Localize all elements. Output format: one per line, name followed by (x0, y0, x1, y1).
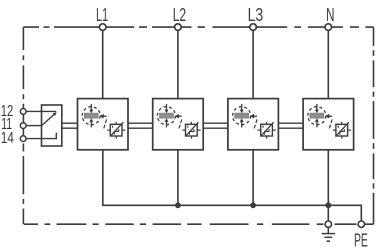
svg-text:PE: PE (354, 230, 368, 249)
SPD protection module U3 (box) (228, 99, 279, 150)
disconnector switch box of module U2 (186, 124, 198, 136)
svg-text:L1: L1 (96, 4, 108, 25)
terminal 14 (20, 136, 26, 142)
interconnect double line (62, 122, 78, 124)
wire module U3 down to PE bus (252, 150, 254, 206)
terminal L1 (99, 24, 106, 31)
thermal arrow (bottom) into varistor VDR3 (241, 121, 243, 127)
remote signalling switch box S1 (42, 105, 62, 146)
terminal N (325, 24, 332, 31)
varistor VDR4 thermal-monitoring dashed circle (308, 107, 326, 125)
varistor VDR3 body (gray) (235, 113, 249, 118)
svg-text:N: N (326, 4, 335, 25)
wire terminal 11 (common) (26, 125, 41, 127)
SPD protection module U1 (box) (78, 99, 129, 150)
varistor VDR4 body (gray) (310, 113, 324, 118)
mechanical linkage (dashed) U2 (179, 119, 182, 128)
SPD protection module U2 (box) (153, 99, 204, 150)
enclosure border right (dash-dot) (373, 27, 375, 224)
interconnect double line (128, 122, 153, 124)
wire N terminal to module U4 (327, 30, 329, 98)
enclosure border top (dash-dot) (23, 26, 373, 28)
terminal 12 (20, 109, 26, 115)
wire module U1 down to PE bus (corner) (103, 150, 362, 221)
earth terminal on enclosure (325, 221, 331, 227)
enclosure border bottom (dash-dot) (24, 223, 374, 225)
disconnector switch box of module U4 (336, 124, 348, 136)
trip indicator arrow of module U4 (325, 114, 329, 119)
interconnect double line (278, 122, 303, 124)
junction dot at U2/bus (175, 202, 181, 208)
svg-text:L3: L3 (248, 4, 264, 25)
terminal L2 (175, 24, 182, 31)
interconnect double line (203, 122, 228, 124)
trip indicator arrow of module U2 (175, 114, 179, 119)
wire L1 terminal to module U1 (102, 30, 104, 98)
disconnector stubs U3 (258, 129, 261, 131)
disconnector stubs U1 (107, 129, 110, 131)
disconnector switch box of module U3 (261, 124, 273, 136)
wire L3 terminal to module U3 (252, 30, 254, 98)
mechanical linkage (dashed) U3 (254, 119, 257, 128)
wire bus down to earth terminal (327, 205, 329, 221)
svg-text:14: 14 (1, 130, 14, 147)
wire L2 terminal to module U2 (177, 30, 179, 98)
thermal arrow (top) into varistor VDR1 (90, 104, 92, 110)
junction dot at U3/bus (250, 202, 256, 208)
wire module U4 down to PE bus (327, 150, 329, 206)
wire terminal 14 (NO contact) (26, 133, 56, 139)
mechanical linkage (dashed) U4 (329, 119, 332, 128)
PE terminal (358, 221, 364, 227)
thermal arrow (top) into varistor VDR4 (316, 104, 318, 110)
mechanical linkage (dashed) U1 (104, 119, 107, 128)
thermal arrow (bottom) into varistor VDR4 (316, 121, 318, 127)
trip indicator arrow of module U1 (100, 114, 104, 119)
varistor VDR1 body (gray) (84, 113, 98, 118)
wire terminal 12 (NC contact) (26, 110, 56, 112)
terminal 11 (20, 123, 26, 129)
switch blade with arrow (42, 114, 55, 125)
SPD protection module U4 (box) (303, 99, 354, 150)
junction dot at N-module/bus (325, 202, 331, 208)
thermal arrow (bottom) into varistor VDR1 (90, 121, 92, 127)
varistor VDR2 thermal-monitoring dashed circle (157, 107, 175, 125)
thermal arrow (bottom) into varistor VDR2 (166, 121, 168, 127)
thermal arrow (top) into varistor VDR3 (241, 104, 243, 110)
ground symbol (327, 228, 329, 234)
svg-text:L2: L2 (173, 4, 186, 25)
varistor VDR1 thermal-monitoring dashed circle (82, 107, 100, 125)
terminal L3 (250, 24, 257, 31)
disconnector stubs U4 (333, 129, 336, 131)
enclosure border left (dash-dot) (22, 27, 24, 224)
disconnector switch box of module U1 (110, 124, 122, 136)
wire module U2 down to PE bus (177, 150, 179, 206)
varistor VDR3 thermal-monitoring dashed circle (233, 107, 251, 125)
trip indicator arrow of module U3 (250, 114, 254, 119)
varistor VDR2 body (gray) (160, 113, 174, 118)
disconnector stubs U2 (182, 129, 185, 131)
thermal arrow (top) into varistor VDR2 (166, 104, 168, 110)
